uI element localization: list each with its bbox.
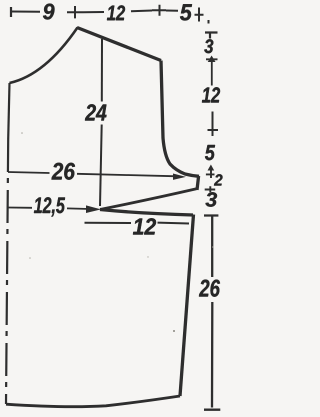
label 26 (bust width)	[52, 163, 76, 180]
right col: stem + cross	[208, 112, 219, 137]
label 12 (shoulder width)	[107, 5, 125, 20]
center vertical line upper	[101, 39, 103, 102]
label 12 (armhole depth)	[202, 87, 220, 102]
label 24 (center back length)	[85, 104, 107, 120]
12 dimension line left (waist)	[85, 222, 132, 224]
26 dimension line right	[77, 174, 173, 176]
speck noise	[173, 330, 175, 332]
right col: stem to bottom T-bar	[204, 302, 220, 410]
right col: up arrow with bar	[206, 167, 215, 179]
top dimension line: segment	[166, 10, 178, 12]
center vertical line lower	[100, 125, 102, 207]
stray mark top right	[208, 20, 210, 24]
neckline curve	[10, 28, 78, 84]
right col: up arrow with crossbar	[206, 59, 218, 85]
right col: T-bar top	[205, 33, 218, 39]
label 12 (waist dart span)	[133, 218, 156, 234]
dart side vertical (beak)	[197, 176, 199, 190]
26 arrowhead	[173, 174, 186, 180]
label 3 (right col lower)	[206, 192, 218, 206]
label 9 (width at shoulder fold to neck)	[43, 4, 55, 20]
dart lower edge / waist seam	[100, 210, 193, 216]
label 3 (back neck drop)	[204, 39, 213, 53]
top dimension line: segment before 9	[12, 11, 40, 13]
label 2 (dart gap)	[214, 174, 223, 185]
right col: bar with stem	[205, 186, 216, 192]
label 26 (skirt length)	[199, 280, 220, 297]
top dimension line: segment	[131, 10, 152, 13]
side seam	[180, 215, 194, 397]
12,5 arrowhead	[86, 205, 101, 213]
shoulder seam	[77, 28, 161, 61]
12 dimension line right (waist)	[158, 222, 190, 225]
label 5	[180, 4, 192, 20]
top dimension line: cross tick 1	[67, 6, 83, 18]
12,5 dimension line right	[67, 207, 90, 210]
12,5 dimension line left	[8, 207, 32, 209]
label 12,5 (waist width)	[34, 197, 65, 216]
hem	[6, 396, 180, 407]
fold line solid top	[8, 83, 9, 139]
right col: T-bar waist + stem	[204, 216, 218, 278]
26 dimension line left	[8, 172, 50, 173]
top dimension line: segment	[83, 11, 104, 13]
top dimension line: end cross	[195, 8, 204, 22]
dart upper edge	[100, 189, 197, 210]
top dimension line: start tick	[10, 7, 12, 17]
label 5 (right col)	[205, 145, 215, 160]
armhole edge	[161, 61, 199, 177]
paper background	[0, 0, 228, 417]
top dimension line: cross tick 2	[152, 5, 166, 16]
fold line dash-dot	[6, 139, 8, 404]
